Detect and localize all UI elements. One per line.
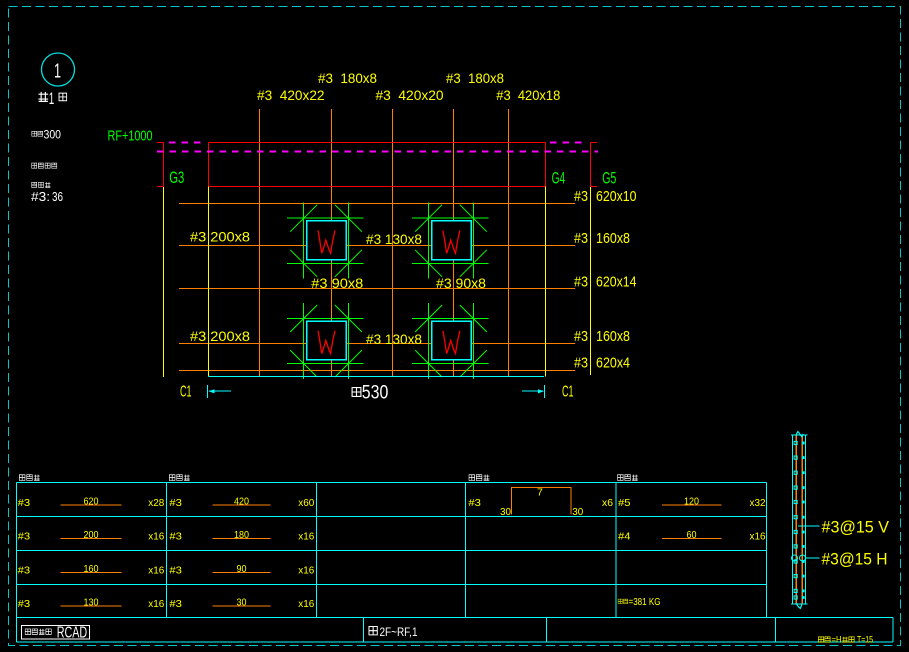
- svg-text:RCAD: RCAD: [57, 624, 87, 641]
- svg-text:x32: x32: [750, 497, 766, 509]
- svg-text:#3: #3: [574, 188, 588, 205]
- svg-text:#3 420x20: #3 420x20: [376, 87, 444, 103]
- svg-text:#3: #3: [574, 355, 588, 372]
- svg-text:#3 90x8: #3 90x8: [436, 275, 486, 291]
- svg-text:#3: #3: [574, 328, 588, 345]
- svg-text:#3: #3: [574, 274, 588, 291]
- svg-text:#3 420x18: #3 420x18: [496, 87, 560, 103]
- svg-text:#5: #5: [618, 497, 631, 509]
- svg-text:G5: G5: [602, 169, 616, 188]
- svg-text:30: 30: [500, 506, 511, 518]
- svg-text:x16: x16: [148, 565, 164, 577]
- svg-text:2F~RF,1: 2F~RF,1: [380, 625, 418, 639]
- svg-text:G3: G3: [169, 168, 184, 187]
- svg-text:#3 180x8: #3 180x8: [446, 70, 504, 86]
- svg-text:#3: #3: [169, 531, 182, 543]
- svg-text:x16: x16: [298, 565, 314, 577]
- svg-text:#3: #3: [574, 230, 588, 247]
- svg-text:=381 KG: =381 KG: [629, 597, 661, 608]
- svg-text:#3@15 H: #3@15 H: [822, 550, 888, 569]
- svg-text:620: 620: [84, 495, 99, 507]
- svg-text:#3: #3: [18, 598, 31, 610]
- svg-text:=H: =H: [832, 634, 842, 644]
- svg-text:#3 200x8: #3 200x8: [190, 328, 250, 344]
- svg-text:30: 30: [237, 596, 247, 608]
- svg-text:300: 300: [44, 129, 62, 141]
- svg-text:#3: #3: [18, 497, 31, 509]
- svg-text:1: 1: [54, 61, 61, 83]
- svg-text:90: 90: [237, 563, 247, 575]
- svg-text:420: 420: [234, 495, 249, 507]
- svg-text:200: 200: [84, 529, 99, 541]
- svg-text:#3:: #3:: [31, 189, 50, 204]
- svg-text:60: 60: [687, 529, 697, 541]
- svg-text:#3@15 V: #3@15 V: [822, 518, 890, 537]
- svg-text:T=15: T=15: [857, 634, 873, 644]
- svg-text:36: 36: [52, 189, 63, 204]
- svg-text:#3 200x8: #3 200x8: [190, 229, 250, 245]
- svg-text:x16: x16: [298, 598, 314, 610]
- svg-text:#3: #3: [18, 531, 31, 543]
- svg-text:#3 420x22: #3 420x22: [257, 87, 325, 103]
- svg-text:#3: #3: [18, 565, 31, 577]
- svg-text:620x14: 620x14: [596, 274, 637, 291]
- svg-text:C1: C1: [562, 384, 574, 401]
- svg-text:#3 180x8: #3 180x8: [318, 70, 377, 86]
- svg-text:1: 1: [49, 89, 55, 108]
- svg-text:x16: x16: [148, 531, 164, 543]
- svg-text:160x8: 160x8: [596, 230, 630, 247]
- svg-text:130: 130: [84, 596, 99, 608]
- svg-text:620x10: 620x10: [596, 188, 637, 205]
- svg-text:C1: C1: [180, 384, 192, 401]
- svg-text:x60: x60: [298, 497, 314, 509]
- svg-text:530: 530: [362, 382, 389, 403]
- svg-text:G4: G4: [552, 169, 566, 188]
- svg-text:#3: #3: [169, 497, 182, 509]
- svg-text:7: 7: [537, 487, 543, 499]
- svg-text:#4: #4: [618, 531, 631, 543]
- svg-text:RF+1000: RF+1000: [108, 128, 153, 145]
- svg-text:120: 120: [684, 495, 699, 507]
- svg-text:x6: x6: [602, 497, 613, 509]
- svg-text:x28: x28: [148, 497, 164, 509]
- svg-text:#3 130x8: #3 130x8: [366, 331, 422, 347]
- svg-text:30: 30: [572, 506, 583, 518]
- svg-text:180: 180: [234, 529, 249, 541]
- svg-text:x16: x16: [148, 598, 164, 610]
- svg-text:620x4: 620x4: [596, 355, 630, 372]
- svg-text:160x8: 160x8: [596, 328, 630, 345]
- svg-text:#3: #3: [169, 598, 182, 610]
- svg-text:x16: x16: [298, 531, 314, 543]
- svg-text:#3: #3: [468, 497, 481, 509]
- svg-text:160: 160: [84, 563, 99, 575]
- svg-text:#3 130x8: #3 130x8: [366, 231, 422, 247]
- svg-text:x16: x16: [750, 531, 766, 543]
- svg-text:#3: #3: [169, 565, 182, 577]
- svg-text:#3 90x8: #3 90x8: [311, 275, 363, 291]
